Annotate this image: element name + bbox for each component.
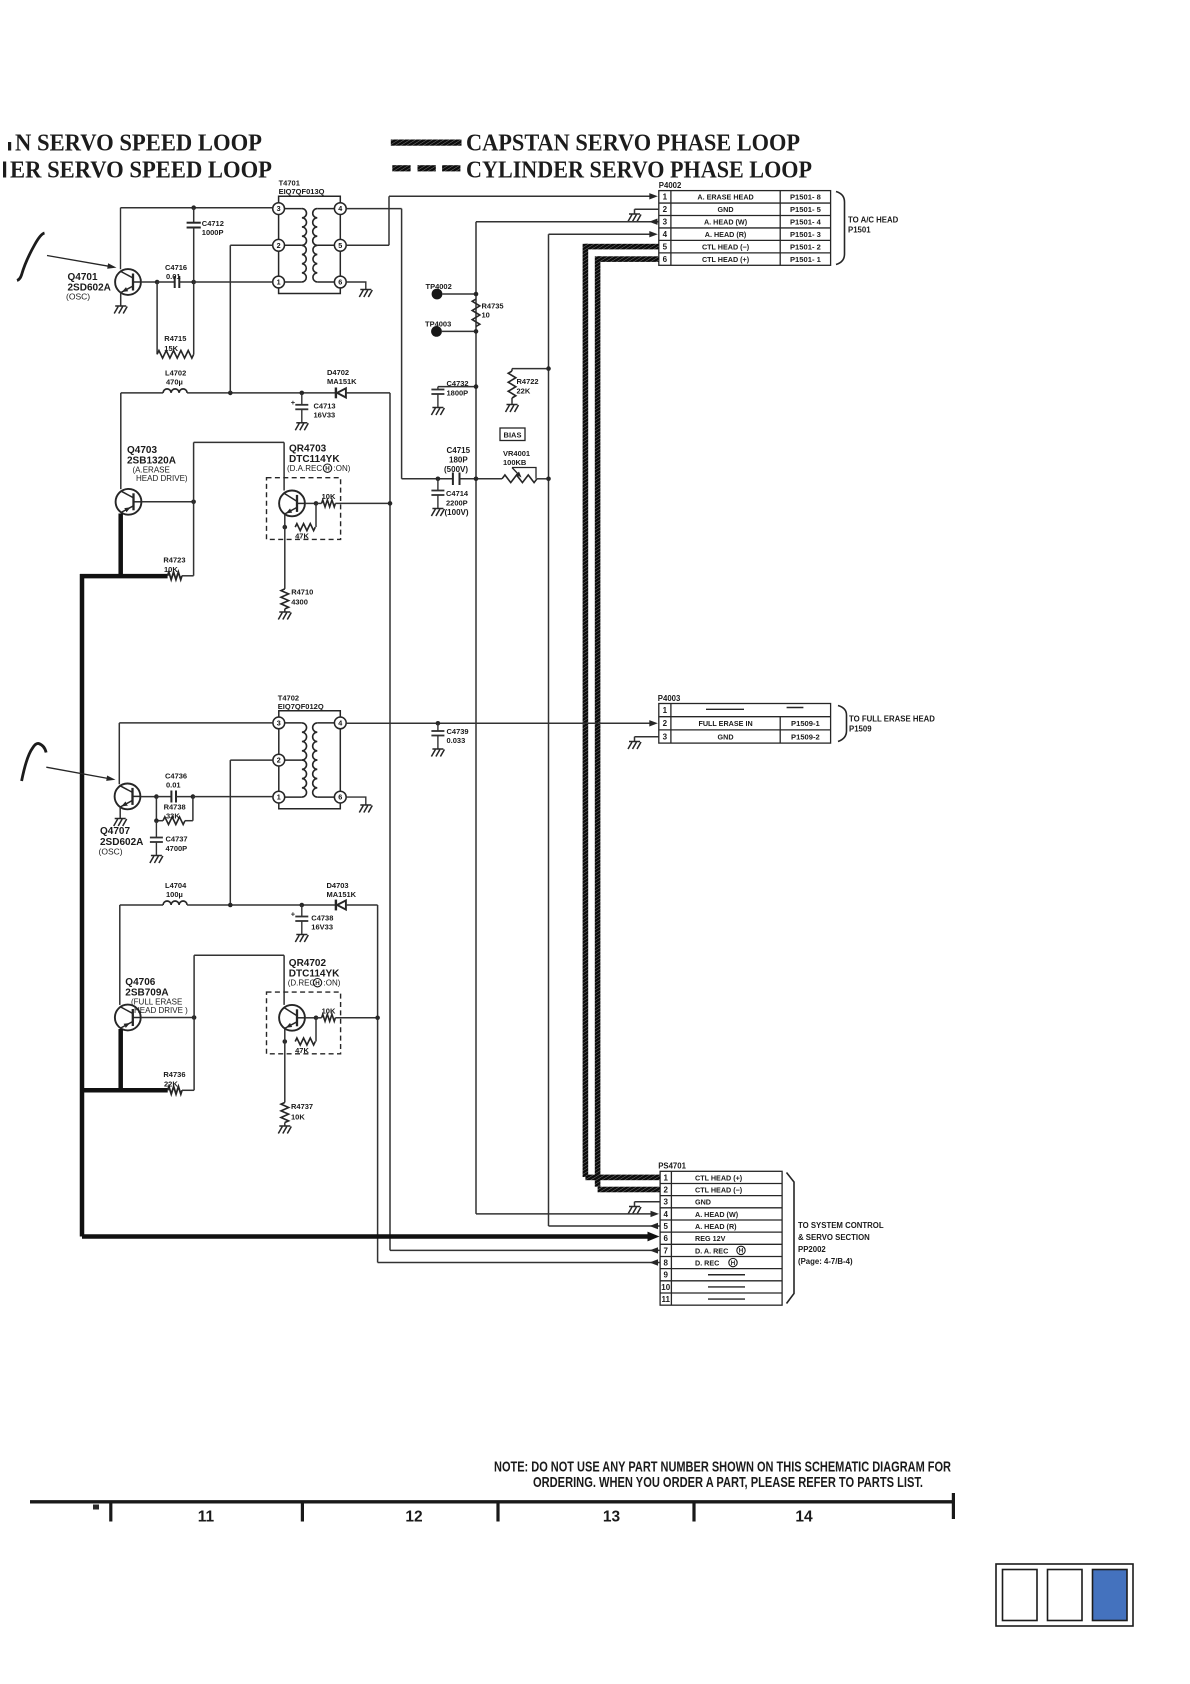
node QR4703 output to bus bbox=[388, 501, 393, 506]
svg-text:1800P: 1800P bbox=[447, 389, 469, 398]
node QR4703 emitter/47K bbox=[283, 525, 288, 530]
svg-text:Q4701: Q4701 bbox=[68, 272, 98, 283]
svg-text:16V33: 16V33 bbox=[311, 923, 333, 932]
wire L4702 line y=392.9 bbox=[121, 392, 163, 394]
capacitor C4715 bbox=[452, 473, 454, 486]
ground at T4702 pin 6 bbox=[359, 805, 372, 813]
node C4738 tap bbox=[300, 903, 305, 908]
svg-text:R4737: R4737 bbox=[291, 1102, 313, 1111]
svg-text:NOTE: DO NOT USE ANY PART NUM: NOTE: DO NOT USE ANY PART NUMBER SHOWN O… bbox=[494, 1460, 951, 1476]
resistor R4735 bbox=[472, 299, 480, 327]
svg-text:6: 6 bbox=[338, 793, 342, 802]
transistor Q4703 2SB1320A bbox=[116, 489, 142, 515]
svg-text:10K: 10K bbox=[322, 1007, 336, 1016]
T4702 pin 3 bbox=[273, 717, 285, 729]
wire PS4701 pin4 A.HEAD(W) bbox=[475, 1213, 477, 1215]
resistor R4722 bbox=[512, 368, 549, 370]
svg-text:PS4701: PS4701 bbox=[658, 1162, 686, 1171]
svg-text:A. HEAD (R): A. HEAD (R) bbox=[705, 230, 747, 239]
node Q4703 base bbox=[191, 500, 196, 505]
svg-text:R4723: R4723 bbox=[163, 556, 185, 565]
wire P4002 pin2 GND bbox=[635, 208, 659, 210]
T4701 pin 3 bbox=[273, 203, 285, 215]
wire T4701 pin5 to P4002 pin1 (A.ERASE HEAD) bbox=[346, 244, 389, 246]
svg-text:2: 2 bbox=[663, 205, 668, 214]
node R4722 tap bbox=[546, 366, 551, 371]
svg-text:1: 1 bbox=[664, 1173, 669, 1182]
wire P4003 pin3 GND bbox=[635, 736, 659, 738]
svg-text:1: 1 bbox=[663, 193, 668, 202]
node base/R4715 bbox=[155, 280, 160, 285]
svg-text:7: 7 bbox=[664, 1246, 669, 1255]
svg-text:H: H bbox=[731, 1260, 736, 1267]
svg-text:(D.REC: (D.REC bbox=[288, 979, 316, 988]
ground of C4714 bbox=[431, 509, 444, 517]
connector PS4701 table bbox=[660, 1171, 782, 1305]
arrow into P4003 pin 2 bbox=[649, 720, 658, 726]
svg-text:CTL HEAD (+): CTL HEAD (+) bbox=[695, 1173, 743, 1182]
svg-text:A. HEAD (R): A. HEAD (R) bbox=[695, 1222, 737, 1231]
svg-text:3: 3 bbox=[663, 218, 668, 227]
svg-text:MA151K: MA151K bbox=[327, 377, 357, 386]
svg-text:CTL HEAD (−): CTL HEAD (−) bbox=[702, 243, 750, 252]
svg-text:FULL ERASE IN: FULL ERASE IN bbox=[698, 719, 752, 728]
ruler tick bbox=[109, 1502, 112, 1522]
ground of R4737 bbox=[278, 1126, 291, 1134]
legend: cylinder servo phase loop dashed hatched line sample bbox=[392, 165, 410, 171]
potentiometer VR4001 bbox=[502, 475, 537, 483]
svg-text:TO A/C HEAD: TO A/C HEAD bbox=[848, 216, 899, 225]
svg-text:ORDERING. WHEN YOU ORDER A: ORDERING. WHEN YOU ORDER A PART, PLEASE … bbox=[533, 1475, 923, 1491]
transistor Q4707 2SD602A bbox=[115, 784, 141, 810]
T4702 bottom frame bbox=[279, 803, 341, 809]
svg-text:A. HEAD (W): A. HEAD (W) bbox=[704, 218, 748, 227]
svg-text:TO FULL ERASE HEAD: TO FULL ERASE HEAD bbox=[849, 715, 935, 724]
test point TP4003 bbox=[431, 326, 442, 337]
wire Q4701 collector line y=207.7 bbox=[121, 207, 273, 209]
svg-text:2: 2 bbox=[664, 1185, 669, 1194]
svg-text:R4710: R4710 bbox=[291, 588, 313, 597]
node bias/A.HEAD(R) bbox=[546, 477, 551, 482]
svg-text:3: 3 bbox=[663, 732, 668, 741]
T4702 primary winding bbox=[302, 723, 307, 760]
svg-text:C4713: C4713 bbox=[314, 402, 336, 411]
svg-text:22K: 22K bbox=[164, 1080, 178, 1089]
svg-text:(500V): (500V) bbox=[444, 465, 468, 474]
ground of C4739 bbox=[431, 749, 444, 757]
svg-text:R4736: R4736 bbox=[163, 1070, 185, 1079]
svg-text:TO SYSTEM CONTROL: TO SYSTEM CONTROL bbox=[798, 1221, 884, 1230]
capacitor C4713 bbox=[301, 393, 303, 405]
ground at P4002 pin 2 bbox=[628, 214, 641, 222]
svg-text:10K: 10K bbox=[291, 1113, 305, 1122]
dash in PS4701 row 9 bbox=[708, 1274, 745, 1276]
wire Q4706 collector bbox=[119, 905, 121, 1005]
svg-text:N SERVO SPEED LOOP: N SERVO SPEED LOOP bbox=[15, 130, 262, 157]
svg-text:10: 10 bbox=[661, 1283, 670, 1292]
svg-text:MA151K: MA151K bbox=[327, 890, 357, 899]
svg-text:(D.A.REC: (D.A.REC bbox=[287, 464, 322, 473]
annotation squiggle near Q4707 bbox=[22, 743, 46, 781]
arrow out of PS4701 pin 5 bbox=[650, 1223, 659, 1229]
svg-text:HEAD DRIVE): HEAD DRIVE) bbox=[136, 474, 188, 483]
svg-text:(OSC): (OSC) bbox=[66, 292, 90, 302]
svg-text:C4716: C4716 bbox=[165, 263, 187, 272]
svg-text:5: 5 bbox=[338, 241, 342, 250]
svg-text:3: 3 bbox=[277, 719, 281, 728]
svg-text:4: 4 bbox=[338, 719, 342, 728]
svg-text:C4736: C4736 bbox=[165, 772, 187, 781]
svg-text:10K: 10K bbox=[322, 492, 336, 501]
svg-text:EIQ7QF013Q: EIQ7QF013Q bbox=[279, 187, 325, 196]
annotation squiggle near Q4701 bbox=[17, 233, 45, 281]
QR4702 emitter down to R4737 bbox=[284, 1029, 286, 1103]
ruler tick bbox=[301, 1502, 304, 1522]
svg-text:P1509-1: P1509-1 bbox=[791, 719, 820, 728]
ground at T4701 pin 6 bbox=[359, 290, 372, 298]
svg-text:10K: 10K bbox=[164, 565, 178, 574]
svg-text:P1501: P1501 bbox=[848, 226, 871, 235]
thick REG 12V line bbox=[82, 1234, 650, 1239]
svg-text:D4703: D4703 bbox=[327, 881, 349, 890]
svg-text:P1501- 2: P1501- 2 bbox=[790, 243, 821, 252]
bias line y=478.8 with C4715 and VR4001 bbox=[402, 478, 453, 480]
ruler right end tick bbox=[952, 1493, 955, 1519]
thick rail: Q4703 emitter bbox=[118, 514, 123, 577]
node Q4707 base/R4738 bbox=[154, 794, 159, 799]
diode D4703 MA151K bbox=[336, 900, 346, 911]
node QR4702 emitter/47K bbox=[283, 1039, 288, 1044]
svg-text:14: 14 bbox=[795, 1509, 813, 1526]
svg-text:0.01: 0.01 bbox=[166, 781, 181, 790]
arrow into PS4701 pin 4 bbox=[651, 1211, 660, 1217]
T4701 pin 5 bbox=[334, 239, 346, 251]
svg-text:1: 1 bbox=[277, 793, 281, 802]
svg-text:CTL HEAD (+): CTL HEAD (+) bbox=[702, 255, 750, 264]
transistor Q4706 2SB709A bbox=[115, 1005, 141, 1031]
annotation arrow to Q4707 bbox=[46, 767, 111, 779]
svg-text:L4702: L4702 bbox=[165, 369, 186, 378]
svg-text:P1501- 3: P1501- 3 bbox=[790, 230, 821, 239]
svg-text:P1509: P1509 bbox=[849, 725, 872, 734]
wire T4702 pin6 to ground bbox=[346, 797, 366, 805]
svg-text::ON): :ON) bbox=[324, 979, 341, 988]
T4701 pin 2 bbox=[273, 239, 285, 251]
wire Q4707 collector line bbox=[119, 722, 273, 724]
svg-text:1: 1 bbox=[277, 278, 281, 287]
svg-text:BIAS: BIAS bbox=[504, 430, 522, 439]
ground of C4713 bbox=[295, 423, 308, 431]
svg-text:C4715: C4715 bbox=[447, 446, 471, 455]
wire vertical A.HEAD(R) x=548.5 bbox=[548, 234, 550, 1226]
svg-text:T4701: T4701 bbox=[279, 179, 300, 188]
ground at PS4701 pin 3 bbox=[628, 1207, 641, 1215]
Q4707 emitter ground bbox=[119, 807, 121, 819]
svg-text:P4002: P4002 bbox=[659, 181, 682, 190]
wire T4702 pin4 full erase output bbox=[346, 722, 650, 724]
svg-text:1: 1 bbox=[663, 706, 668, 715]
capacitor C4739 bbox=[437, 723, 439, 731]
node TP4002/R4735 bbox=[474, 292, 479, 297]
svg-text:H: H bbox=[325, 465, 330, 472]
ground of R4710 bbox=[278, 612, 291, 620]
svg-text:HEAD DRIVE ): HEAD DRIVE ) bbox=[134, 1006, 188, 1015]
arrow out of PS4701 pin 8 bbox=[650, 1259, 659, 1265]
svg-text:0.033: 0.033 bbox=[447, 736, 466, 745]
T4701 bottom frame bbox=[279, 288, 341, 294]
wire PS4701 pin8 D.REC bbox=[378, 1262, 660, 1264]
T4702 secondary winding bbox=[313, 723, 318, 760]
connector P4003 table bbox=[659, 704, 831, 744]
svg-text:2: 2 bbox=[277, 241, 281, 250]
wire vertical D.REC bus x=377.6 bbox=[377, 905, 379, 1263]
arrow out of PS4701 pin 7 bbox=[650, 1247, 659, 1253]
svg-text:+: + bbox=[291, 910, 296, 919]
brace to system control bbox=[787, 1173, 795, 1304]
svg-text:D. A. REC: D. A. REC bbox=[695, 1246, 728, 1255]
svg-text:D4702: D4702 bbox=[327, 368, 349, 377]
svg-text:(Page: 4-7/B-4): (Page: 4-7/B-4) bbox=[798, 1257, 853, 1266]
svg-text:L4704: L4704 bbox=[165, 881, 187, 890]
capacitor C4712 bbox=[193, 208, 195, 223]
wire PS4701 pin7 D.A.REC bbox=[390, 1249, 660, 1251]
arrow out of P4002 pin 3 bbox=[649, 219, 658, 225]
ruler tick bbox=[692, 1502, 695, 1522]
svg-text:11: 11 bbox=[662, 1295, 671, 1304]
svg-text:P1501- 1: P1501- 1 bbox=[790, 255, 822, 264]
ruler left small mark bbox=[93, 1505, 99, 1510]
svg-text:15K: 15K bbox=[164, 344, 178, 353]
page indicator square 1 bbox=[1003, 1570, 1038, 1621]
svg-text:4300: 4300 bbox=[291, 598, 308, 607]
svg-text:C4739: C4739 bbox=[447, 727, 469, 736]
svg-text:GND: GND bbox=[695, 1198, 711, 1207]
T4702 pin 6 bbox=[334, 791, 346, 803]
wire Q4707 base line y=796.6 bbox=[140, 796, 156, 798]
svg-text:12: 12 bbox=[405, 1509, 422, 1526]
resistor R4710 bbox=[281, 589, 289, 609]
ground at Q4701 emitter bbox=[114, 306, 127, 314]
wire PS4701 pin5 A.HEAD(R) bbox=[549, 1225, 661, 1227]
svg-text:10: 10 bbox=[482, 311, 490, 320]
svg-text:A. HEAD (W): A. HEAD (W) bbox=[695, 1210, 739, 1219]
T4701 primary winding bbox=[302, 209, 307, 246]
node L4704/T4702 pin2 feed bbox=[228, 903, 233, 908]
node C4713 tap bbox=[300, 391, 305, 396]
svg-text:33K: 33K bbox=[166, 812, 180, 821]
svg-text:3: 3 bbox=[664, 1198, 669, 1207]
wire T4701 pin6 to ground bbox=[346, 282, 366, 290]
page indicator square 2 bbox=[1048, 1570, 1083, 1621]
dash in PS4701 row 11 bbox=[708, 1298, 745, 1300]
thick rail vertical left bus bbox=[80, 574, 85, 1237]
svg-text:C4714: C4714 bbox=[446, 489, 469, 498]
dash in P4003 row 1 bbox=[706, 708, 744, 710]
node C4712 top junction bbox=[191, 205, 196, 210]
node QR4703 10K/47K bbox=[314, 501, 319, 506]
node QR4702 10K/47K bbox=[314, 1016, 319, 1021]
wire QR4703 input bbox=[194, 441, 285, 443]
capacitor C4736 bbox=[170, 791, 172, 803]
QR4702 dashed box bbox=[267, 992, 341, 1054]
svg-text:ER SERVO SPEED LOOP: ER SERVO SPEED LOOP bbox=[10, 157, 272, 184]
svg-text:QR4702: QR4702 bbox=[289, 958, 327, 969]
svg-text:47K: 47K bbox=[295, 1046, 309, 1055]
annotation arrow to Q4701 bbox=[47, 256, 112, 267]
svg-text:+: + bbox=[291, 398, 296, 407]
svg-text:EIQ7QF012Q: EIQ7QF012Q bbox=[278, 702, 324, 711]
svg-text:6: 6 bbox=[664, 1234, 669, 1243]
svg-text:Q4703: Q4703 bbox=[127, 445, 157, 456]
svg-text:H: H bbox=[739, 1248, 744, 1255]
resistor R4723 bbox=[168, 572, 182, 580]
resistor R4737 bbox=[281, 1103, 289, 1123]
svg-text:47K: 47K bbox=[295, 532, 309, 541]
svg-text:C4712: C4712 bbox=[202, 219, 224, 228]
svg-text:PP2002: PP2002 bbox=[798, 1245, 826, 1254]
node base/C4712 bbox=[191, 280, 196, 285]
wire P4002 pin3 A.HEAD (W) bbox=[476, 221, 659, 223]
node bias/A.HEAD(W) bbox=[474, 477, 479, 482]
svg-text:(OSC): (OSC) bbox=[99, 847, 123, 857]
page indicator box bbox=[996, 1564, 1133, 1626]
svg-text:CYLINDER SERVO PHASE LOOP: CYLINDER SERVO PHASE LOOP bbox=[466, 157, 812, 184]
dash in PS4701 row 10 bbox=[708, 1286, 745, 1288]
node Q4706 base bbox=[192, 1015, 197, 1020]
diode D4702 MA151K bbox=[336, 388, 346, 399]
wire Q4706 base bbox=[141, 1017, 194, 1019]
svg-text:C4732: C4732 bbox=[447, 379, 469, 388]
transistor QR4702 DTC114YK bbox=[279, 1005, 305, 1031]
connector P4002 table bbox=[659, 191, 831, 266]
svg-text:2: 2 bbox=[663, 719, 668, 728]
legend: capstan servo phase loop hatched line sample bbox=[391, 140, 462, 146]
capacitor C4716 bbox=[174, 276, 176, 288]
node C4739 tap bbox=[436, 721, 441, 726]
svg-text::ON): :ON) bbox=[334, 464, 351, 473]
QR4703 internal 47K resistor bbox=[315, 503, 317, 527]
svg-text:9: 9 bbox=[664, 1271, 669, 1280]
svg-text:16V33: 16V33 bbox=[314, 411, 336, 420]
svg-text:CTL HEAD (−): CTL HEAD (−) bbox=[695, 1185, 743, 1194]
svg-text:P1501- 4: P1501- 4 bbox=[790, 218, 822, 227]
svg-text:22K: 22K bbox=[517, 387, 531, 396]
svg-text:P1501- 8: P1501- 8 bbox=[790, 193, 821, 202]
T4702 pin 4 bbox=[334, 717, 346, 729]
svg-text:REG 12V: REG 12V bbox=[695, 1234, 726, 1243]
T4702 pin 1 bbox=[273, 791, 285, 803]
svg-text:4: 4 bbox=[663, 230, 668, 239]
Q4701 emitter to ground bbox=[120, 293, 122, 306]
svg-text:R4722: R4722 bbox=[517, 377, 539, 386]
svg-text:P4003: P4003 bbox=[658, 694, 681, 703]
ground of R4722 bbox=[506, 405, 519, 413]
page indicator square 3 (active, blue) bbox=[1093, 1570, 1128, 1621]
wire vertical x=401.6 pin4 to C4715 bbox=[401, 209, 403, 479]
svg-text:8: 8 bbox=[664, 1258, 669, 1267]
svg-text:P1501- 5: P1501- 5 bbox=[790, 205, 822, 214]
svg-text:QR4703: QR4703 bbox=[289, 444, 327, 455]
T4702 pin 2 bbox=[273, 754, 285, 766]
svg-text:1000P: 1000P bbox=[202, 228, 224, 237]
wire Q4703 base bbox=[142, 501, 194, 503]
wire P4002 pin4 A.HEAD (R) bbox=[549, 233, 651, 235]
svg-text:11: 11 bbox=[198, 1509, 215, 1526]
capacitor C4732 bbox=[437, 387, 439, 390]
svg-text:(100V): (100V) bbox=[445, 508, 469, 517]
capacitor C4738 bbox=[301, 905, 303, 917]
wire vertical D.A.REC bus x=390 bbox=[389, 393, 391, 1251]
svg-text:CAPSTAN SERVO PHASE LOOP: CAPSTAN SERVO PHASE LOOP bbox=[466, 130, 800, 157]
ruler tick bbox=[496, 1502, 499, 1522]
svg-text:R4735: R4735 bbox=[482, 302, 504, 311]
wire QR4702 input bbox=[194, 954, 284, 956]
node R4738/C4737 bbox=[154, 818, 159, 823]
svg-text:180P: 180P bbox=[449, 456, 468, 465]
svg-text:R4715: R4715 bbox=[164, 334, 186, 343]
svg-text:C4738: C4738 bbox=[311, 914, 333, 923]
svg-text:TP4003: TP4003 bbox=[425, 319, 451, 328]
svg-text:TP4002: TP4002 bbox=[426, 282, 452, 291]
svg-text:R4738: R4738 bbox=[164, 803, 186, 812]
resistor R4715 bbox=[156, 282, 158, 354]
node L4702/T4701 pin2 feed bbox=[228, 391, 233, 396]
BIAS box bbox=[500, 428, 525, 441]
wire Q4703 collector bbox=[120, 393, 122, 489]
T4701 pin 4 bbox=[334, 203, 346, 215]
resistor R4738 bbox=[155, 797, 157, 821]
ground of C4738 bbox=[295, 935, 308, 943]
svg-text:A. ERASE HEAD: A. ERASE HEAD bbox=[697, 193, 753, 202]
svg-text:5: 5 bbox=[663, 243, 668, 252]
svg-text:GND: GND bbox=[718, 732, 734, 741]
svg-text:100KB: 100KB bbox=[503, 458, 527, 467]
svg-text:100µ: 100µ bbox=[166, 890, 183, 899]
svg-text:2200P: 2200P bbox=[446, 499, 468, 508]
svg-text:Q4707: Q4707 bbox=[100, 826, 130, 837]
svg-text:C4737: C4737 bbox=[166, 835, 188, 844]
capacitor C4737 bbox=[155, 821, 157, 838]
svg-text:VR4001: VR4001 bbox=[503, 449, 530, 458]
svg-text:4700P: 4700P bbox=[166, 844, 188, 853]
capacitor C4714 bbox=[437, 479, 439, 491]
svg-text:3: 3 bbox=[277, 204, 281, 213]
T4701 secondary winding bbox=[313, 209, 318, 246]
QR4702 internal 10K resistor bbox=[305, 1017, 316, 1019]
ruler line bbox=[30, 1500, 955, 1503]
brace to A/C head bbox=[836, 192, 845, 265]
svg-text:P1509-2: P1509-2 bbox=[791, 732, 820, 741]
T4702 top frame bbox=[279, 711, 341, 717]
svg-text:& SERVO SECTION: & SERVO SECTION bbox=[798, 1233, 870, 1242]
QR4702 internal 47K resistor bbox=[315, 1018, 317, 1042]
svg-text:4: 4 bbox=[664, 1210, 669, 1219]
transistor Q4701 2SD602A bbox=[115, 269, 141, 295]
QR4703 internal 10K resistor bbox=[305, 502, 316, 504]
ground at Q4707 emitter bbox=[114, 819, 127, 827]
hatched bus CTL HEAD (+) from P4002 pin6 to PS4701 pin2 bbox=[598, 256, 659, 262]
node QR4702 output to bus bbox=[375, 1016, 380, 1021]
test point TP4002 bbox=[432, 289, 443, 300]
svg-text:5: 5 bbox=[664, 1222, 669, 1231]
inductor L4704 bbox=[163, 901, 187, 905]
wire PS4701 pin3 GND bbox=[635, 1201, 661, 1203]
wire vertical A.HEAD(W) x=476 bbox=[475, 222, 477, 1214]
node TP4003/R4735 bbox=[474, 329, 479, 334]
capacitor C4732 bbox=[438, 386, 476, 388]
wire T4701 pin2 to L4702 line bbox=[230, 244, 272, 246]
hatched bus CTL HEAD (-) from P4002 pin5 to PS4701 pin1 bbox=[585, 244, 658, 250]
